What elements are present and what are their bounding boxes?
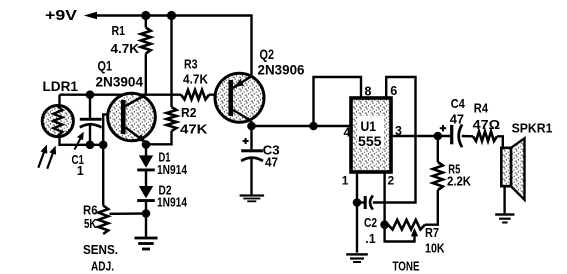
svg-text:C2: C2 [364, 216, 377, 230]
svg-text:1N914: 1N914 [157, 196, 187, 210]
svg-text:R3: R3 [184, 56, 198, 71]
svg-text:SPKR1: SPKR1 [512, 120, 553, 135]
svg-text:2N3904: 2N3904 [96, 74, 144, 90]
svg-text:2: 2 [388, 173, 395, 187]
svg-text:5K: 5K [84, 216, 97, 231]
svg-text:R1: R1 [112, 23, 126, 38]
svg-text:47Ω: 47Ω [473, 117, 500, 132]
svg-text:R7: R7 [425, 225, 439, 240]
svg-text:1: 1 [77, 164, 84, 178]
svg-text:47: 47 [265, 155, 278, 170]
svg-text:4.7K: 4.7K [111, 41, 140, 56]
svg-text:4: 4 [344, 126, 351, 140]
svg-text:+9V: +9V [45, 7, 77, 24]
svg-text:3: 3 [395, 124, 402, 138]
svg-text:TONE: TONE [393, 260, 420, 274]
svg-text:.1: .1 [365, 232, 375, 246]
svg-text:4.7K: 4.7K [183, 71, 209, 86]
svg-text:555: 555 [358, 133, 382, 149]
svg-text:1N914: 1N914 [157, 163, 187, 177]
svg-text:C4: C4 [451, 96, 466, 111]
svg-text:SENS.: SENS. [83, 242, 118, 257]
svg-text:1: 1 [342, 173, 349, 187]
svg-text:8: 8 [365, 85, 372, 99]
svg-text:47: 47 [450, 111, 464, 126]
svg-text:U1: U1 [361, 119, 377, 134]
svg-text:2.2K: 2.2K [447, 174, 472, 189]
svg-text:10K: 10K [425, 241, 445, 256]
svg-text:6: 6 [390, 84, 397, 98]
svg-text:R4: R4 [474, 101, 489, 116]
svg-text:R2: R2 [181, 105, 197, 120]
svg-text:2N3906: 2N3906 [258, 62, 305, 78]
svg-text:LDR1: LDR1 [43, 79, 79, 94]
svg-text:47K: 47K [180, 122, 208, 137]
svg-text:ADJ.: ADJ. [91, 258, 114, 273]
svg-text:Q1: Q1 [98, 59, 113, 74]
svg-text:Q2: Q2 [260, 47, 275, 62]
